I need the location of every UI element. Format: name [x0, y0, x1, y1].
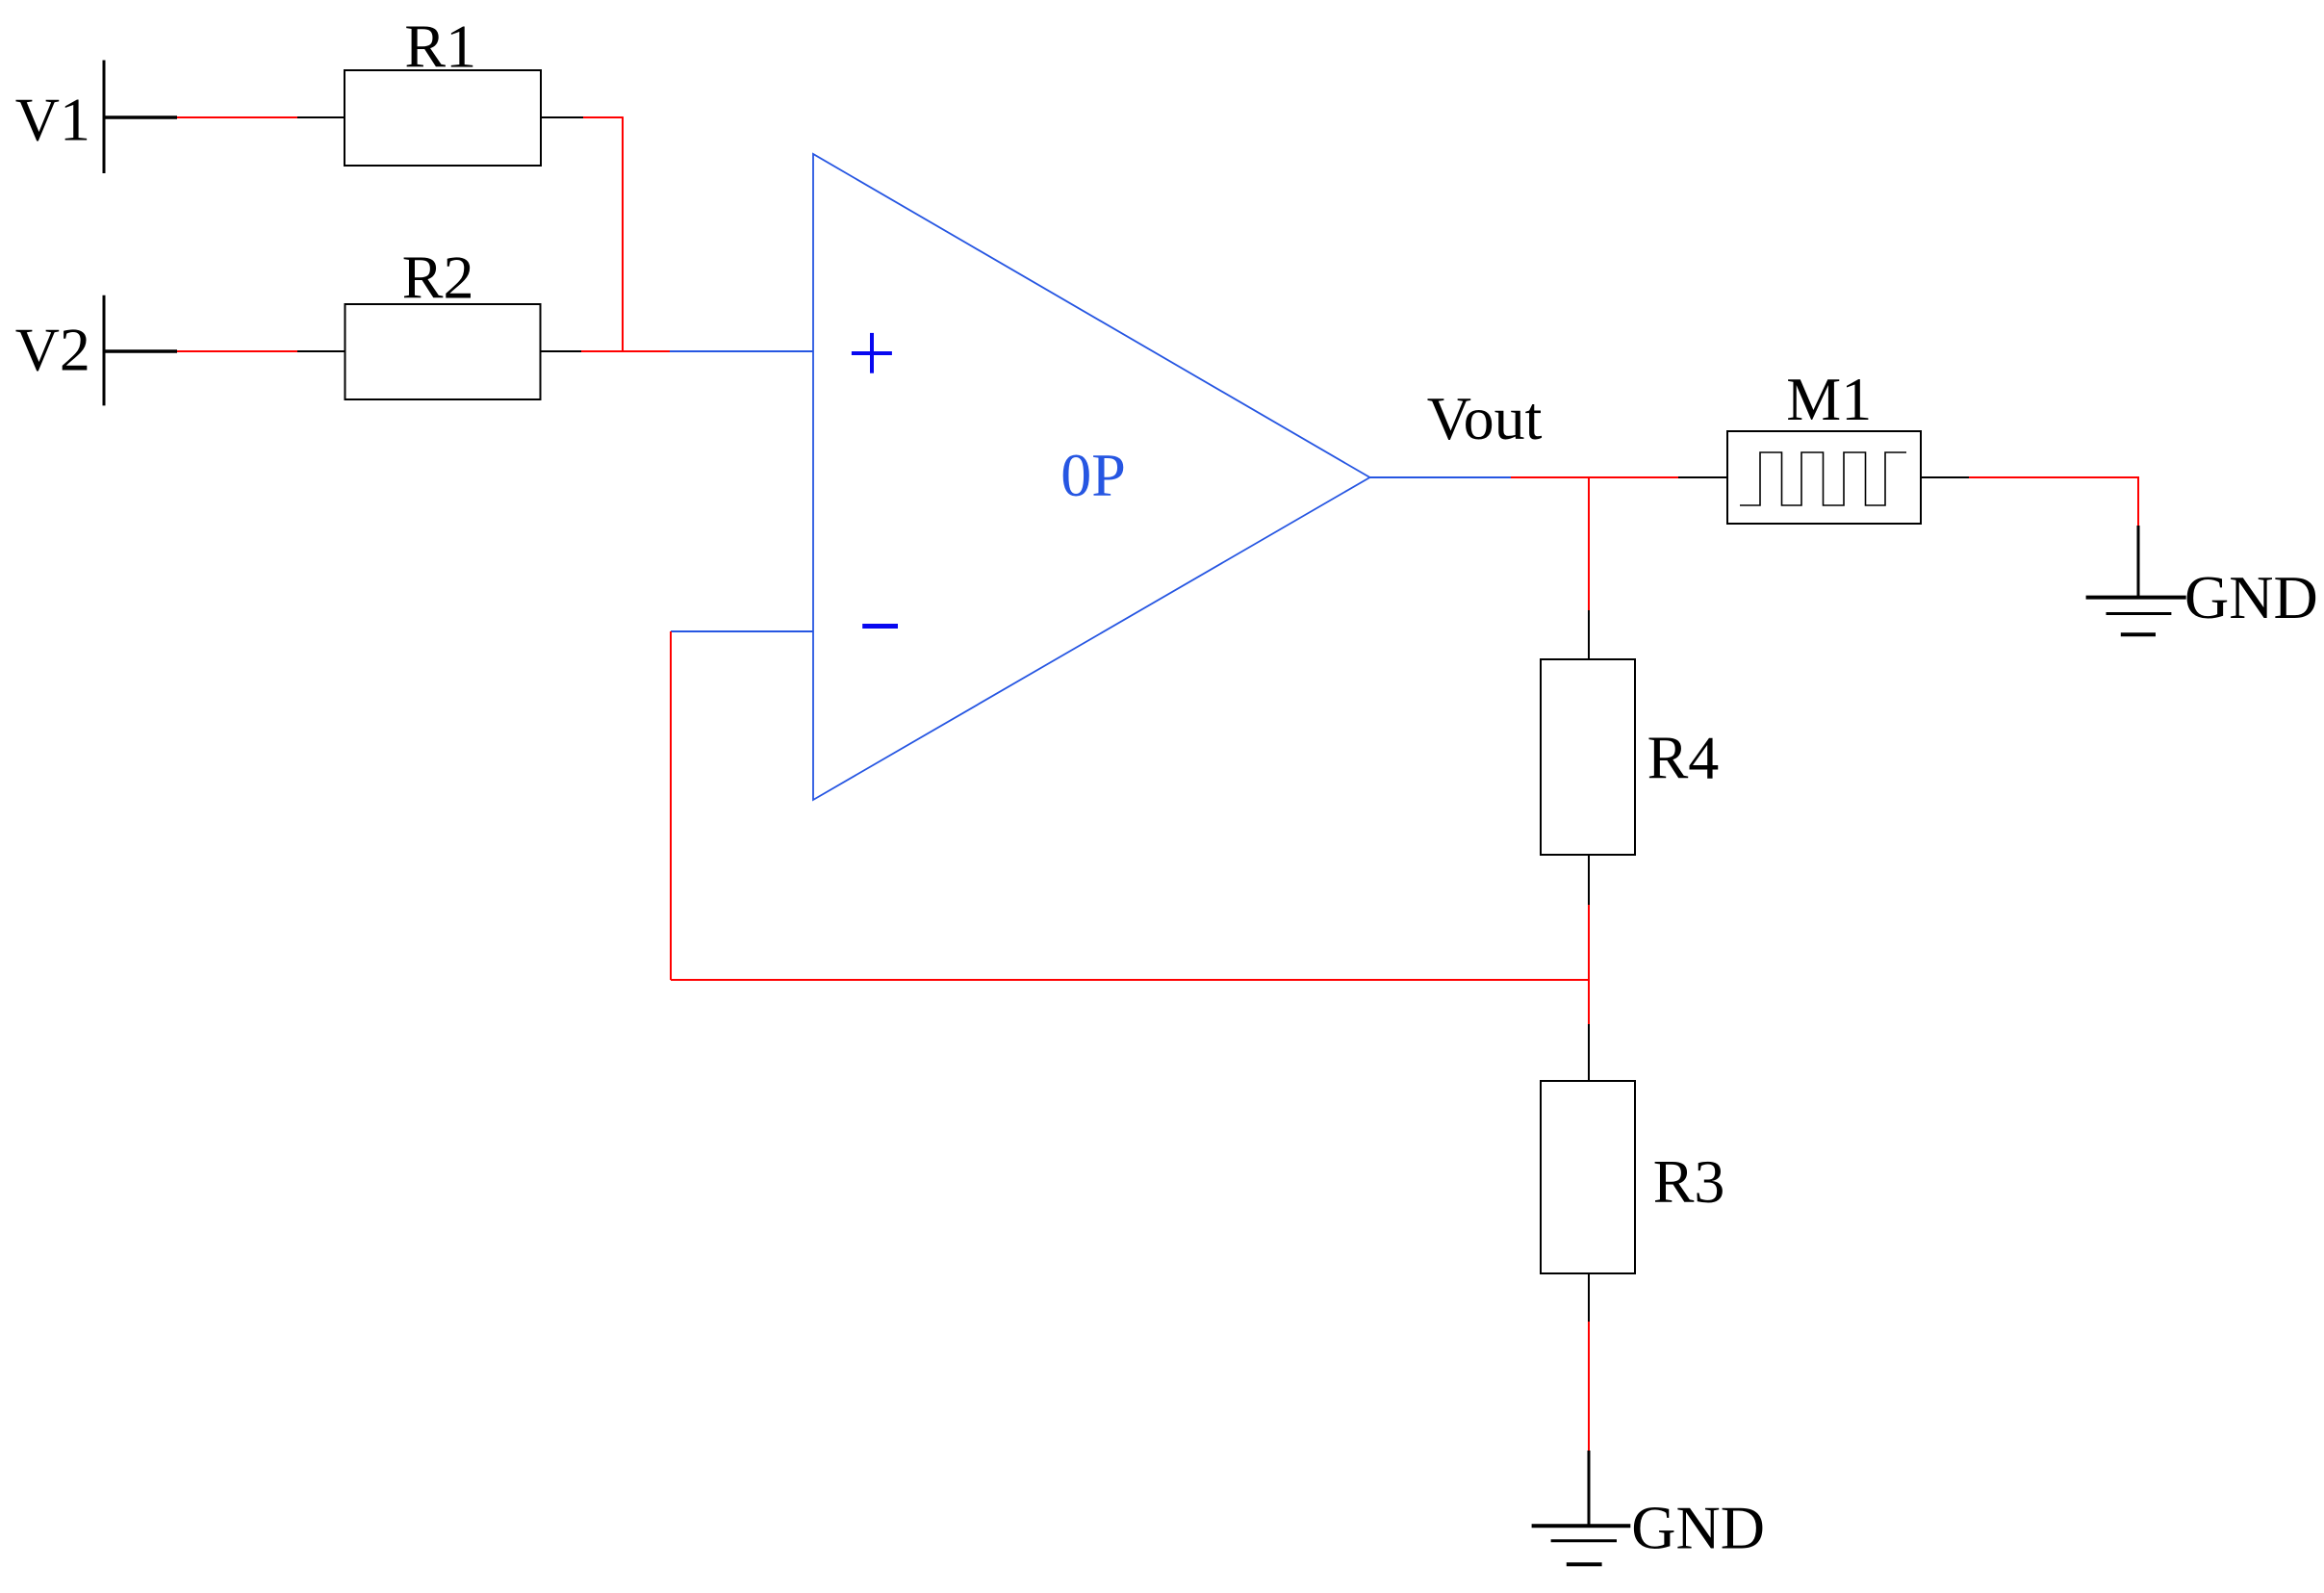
- node V2 terminal: [104, 295, 177, 406]
- wire R2 output (black): [541, 350, 582, 352]
- wire feedback to minus input (blue): [671, 630, 813, 632]
- svg-text:R3: R3: [1653, 1147, 1725, 1216]
- wire V2 to R2 (red): [177, 350, 297, 352]
- wire to R3 top (black): [1588, 1024, 1590, 1081]
- resistor R4: [1541, 659, 1635, 855]
- svg-text:Vout: Vout: [1427, 384, 1543, 452]
- svg-text:R4: R4: [1647, 724, 1720, 792]
- wire feedback vertical (red): [670, 631, 672, 980]
- svg-text:0P: 0P: [1060, 441, 1126, 509]
- wire to op-amp plus input (blue): [670, 350, 813, 352]
- resistor R2: [345, 304, 541, 399]
- wire R1 output (red): [583, 116, 624, 118]
- svg-text:R2: R2: [402, 244, 474, 312]
- resistor R3: [1541, 1081, 1635, 1273]
- ground top right: [2086, 526, 2186, 634]
- wire M1 right lead (black): [1921, 476, 1969, 478]
- wire M1 to GND (red): [1969, 477, 2138, 526]
- wire R1 output (black): [541, 116, 583, 118]
- wire M1 left lead (black): [1678, 476, 1727, 478]
- wire feedback horizontal (red): [671, 979, 1589, 981]
- wire V2 to R2 (black): [297, 350, 345, 352]
- wire R4 to R3 (red): [1588, 905, 1590, 1024]
- wire R1 down to V2 row (red): [622, 117, 624, 352]
- svg-text:R1: R1: [404, 12, 476, 80]
- wire op-amp output (blue): [1370, 476, 1512, 478]
- op-amp minus symbol: [862, 624, 898, 629]
- wire R3 bottom (black): [1588, 1273, 1590, 1322]
- ground bottom: [1532, 1451, 1631, 1564]
- wire R4 bottom (black): [1588, 855, 1590, 905]
- wire output to M1 (red): [1511, 476, 1678, 478]
- svg-text:M1: M1: [1786, 365, 1872, 433]
- wire Vout junction down (red): [1588, 477, 1590, 610]
- wire to R4 top (black): [1588, 610, 1590, 659]
- svg-text:GND: GND: [1631, 1493, 1765, 1561]
- wire V1 to R1 (red): [177, 116, 297, 118]
- svg-text:V1: V1: [15, 85, 90, 153]
- wire R2 output (red): [581, 350, 670, 352]
- op-amp plus symbol: [852, 333, 892, 373]
- resistor R1: [345, 70, 541, 166]
- memristor M1: [1727, 431, 1921, 524]
- wire V1 to R1 (black): [297, 116, 345, 118]
- op-amp U1 triangle: [813, 154, 1370, 800]
- node V1 terminal: [104, 61, 177, 174]
- svg-text:GND: GND: [2184, 563, 2318, 631]
- svg-text:V2: V2: [15, 316, 90, 384]
- wire R3 to GND (red): [1588, 1322, 1590, 1451]
